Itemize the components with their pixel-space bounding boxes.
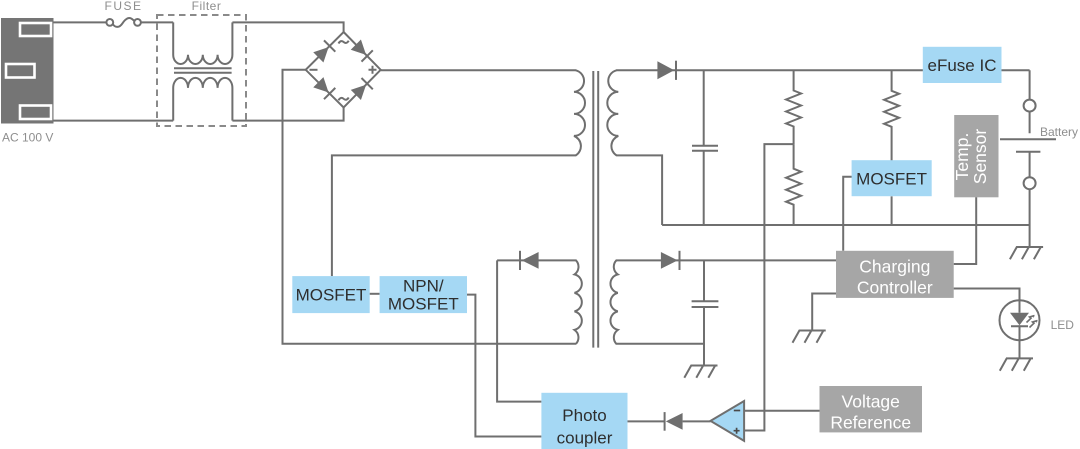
capacitor C2 (aux) bbox=[692, 260, 719, 365]
wire charging controller to ground left bbox=[812, 294, 836, 331]
svg-text:Photo: Photo bbox=[562, 406, 606, 425]
bridge diode D-d bbox=[350, 78, 373, 101]
wire MOSFET Q2 gate to charging controller bbox=[843, 177, 854, 251]
inductor L2 (filter bottom winding) bbox=[173, 78, 232, 121]
wire filter to bridge bottom bbox=[232, 108, 343, 121]
wire secondary top rail bbox=[616, 69, 1030, 71]
svg-text:Charging: Charging bbox=[859, 256, 930, 276]
svg-text:Battery: Battery bbox=[1040, 125, 1078, 139]
Voltage Reference U7 block bbox=[820, 386, 923, 433]
svg-text:AC 100 V: AC 100 V bbox=[2, 131, 53, 145]
MOSFET Q1 block bbox=[292, 276, 369, 313]
bridge rectifier BR1 bbox=[306, 32, 381, 108]
svg-text:FUSE: FUSE bbox=[104, 0, 142, 13]
ground G2 (LED) bbox=[1000, 358, 1033, 370]
wire photo coupler to diode D5 bbox=[628, 420, 665, 422]
wire aux secondary to charging controller bbox=[704, 259, 836, 261]
AC plug P1 bbox=[1, 18, 54, 124]
diode D5 (comparator output) bbox=[665, 412, 683, 431]
op-amp U6 comparator bbox=[711, 401, 745, 441]
wire fuse to filter bbox=[141, 21, 173, 23]
svg-text:Controller: Controller bbox=[857, 277, 933, 297]
eFuse IC U2 block bbox=[923, 47, 1002, 83]
ground G1 (battery) bbox=[1010, 247, 1043, 259]
resistor R1 (divider upper) bbox=[786, 70, 801, 144]
transformer T1 secondary winding bbox=[607, 70, 662, 225]
wire Q1 to NPN driver bbox=[370, 293, 380, 295]
wire aux diode to photo coupler bbox=[497, 260, 541, 401]
capacitor C1 (output) bbox=[692, 70, 718, 225]
bridge AC mark bottom bbox=[339, 98, 349, 101]
svg-text:Filter: Filter bbox=[192, 0, 222, 13]
transformer T1 aux secondary winding bbox=[610, 260, 704, 343]
wire NPN driver to photo coupler bbox=[467, 295, 541, 437]
svg-text:coupler: coupler bbox=[557, 429, 613, 448]
svg-text:Reference: Reference bbox=[830, 413, 911, 433]
svg-text:MOSFET: MOSFET bbox=[388, 295, 459, 314]
battery terminal top bbox=[1024, 100, 1036, 112]
resistor R3 (MOSFET branch) bbox=[884, 70, 899, 161]
transformer T1 aux primary winding bbox=[497, 260, 582, 343]
wire plug top to fuse bbox=[54, 21, 107, 23]
filter core bbox=[174, 68, 232, 73]
bridge plus mark bbox=[369, 66, 377, 74]
svg-text:Voltage: Voltage bbox=[842, 392, 900, 412]
LED D6 bbox=[1000, 300, 1040, 340]
svg-text:MOSFET: MOSFET bbox=[856, 170, 927, 189]
svg-text:NPN/: NPN/ bbox=[403, 277, 444, 296]
MOSFET Q2 block bbox=[852, 160, 932, 196]
svg-text:MOSFET: MOSFET bbox=[296, 286, 367, 305]
diode D2 (main secondary rectifier) bbox=[657, 61, 676, 80]
wire comparator minus input to voltage reference bbox=[744, 410, 819, 412]
Temp. Sensor U3 block bbox=[952, 115, 999, 197]
bridge diode D-a bbox=[313, 40, 336, 63]
Photo coupler U5 block bbox=[541, 393, 627, 449]
wire secondary bottom rail bbox=[662, 224, 1030, 226]
bridge diode D-b bbox=[350, 39, 373, 62]
ground G3 (controller) bbox=[793, 331, 826, 343]
wire bridge plus to transformer primary bbox=[381, 69, 577, 71]
Charging Controller U4 block bbox=[836, 251, 954, 298]
battery terminal bottom bbox=[1024, 177, 1036, 189]
battery BT1 plates bbox=[1000, 139, 1056, 152]
bridge minus mark bbox=[310, 69, 318, 71]
wire diode D5 to comparator output bbox=[683, 420, 711, 422]
wire LED to ground bbox=[1019, 340, 1021, 358]
wire temp sensor to charging controller bbox=[954, 197, 977, 264]
svg-text:Sensor: Sensor bbox=[970, 129, 990, 185]
svg-text:LED: LED bbox=[1051, 318, 1075, 332]
resistor R2 (divider lower) bbox=[786, 144, 801, 225]
filter FL1 dashed box bbox=[157, 15, 246, 126]
svg-text:eFuse IC: eFuse IC bbox=[928, 56, 997, 75]
wire charging controller to LED bbox=[954, 289, 1020, 301]
svg-text:Temp.: Temp. bbox=[952, 133, 972, 181]
wire filter to bridge top bbox=[232, 22, 343, 32]
bridge AC mark top bbox=[339, 41, 349, 44]
wire bridge minus rail to aux winding bbox=[283, 70, 577, 344]
ground G4 (aux cap) bbox=[684, 366, 717, 378]
NPN/MOSFET Q3 block bbox=[380, 276, 467, 313]
transformer T1 primary winding bbox=[332, 70, 585, 276]
diode D3 (aux primary) bbox=[520, 251, 539, 270]
wire MOSFET Q2 to bottom rail bbox=[891, 196, 893, 225]
transformer T1 core bbox=[593, 71, 598, 348]
inductor L1 (filter top winding) bbox=[173, 22, 232, 64]
bridge diode D-c bbox=[313, 77, 336, 100]
wire divider tap to comparator bbox=[745, 144, 794, 430]
fuse F1 bbox=[106, 18, 141, 27]
diode D4 (aux secondary) bbox=[661, 251, 680, 270]
wire comparator plus input bbox=[745, 430, 764, 432]
wire plug bottom to filter bbox=[54, 120, 174, 122]
wire battery branch bbox=[1029, 70, 1031, 247]
